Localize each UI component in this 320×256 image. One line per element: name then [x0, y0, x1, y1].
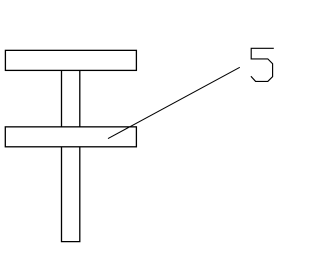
- middle flange (lower horizontal bar): [5, 127, 136, 147]
- post lower segment (below middle flange, closed bottom): [62, 147, 80, 242]
- top flange (upper horizontal bar): [5, 50, 136, 70]
- post upper segment (between flanges): [62, 70, 80, 127]
- reference numeral 5: [251, 48, 274, 81]
- leader line to reference numeral 5: [108, 67, 240, 138]
